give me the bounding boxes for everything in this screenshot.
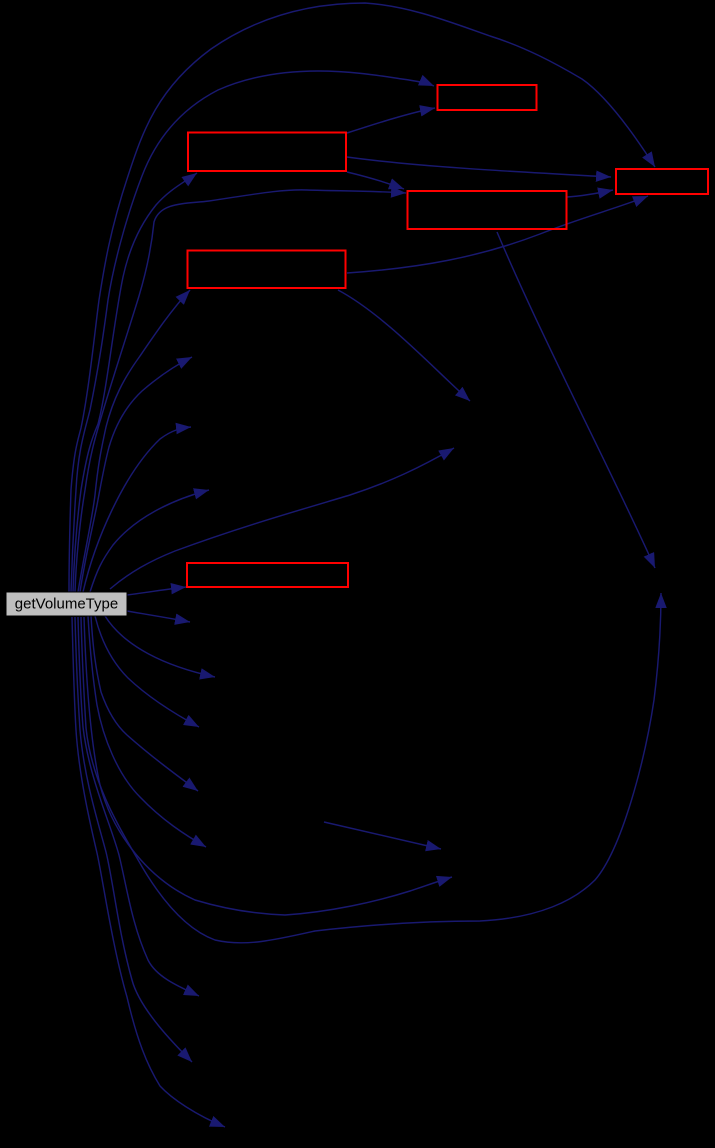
- svg-text:getVolumeType: getVolumeType: [15, 596, 118, 613]
